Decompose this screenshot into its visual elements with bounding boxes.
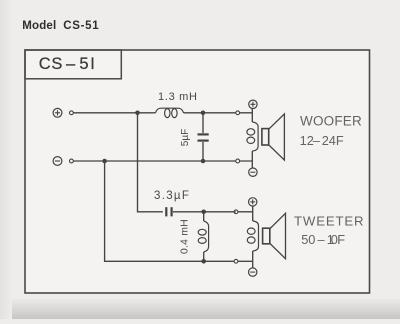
label TWEETER: [294, 213, 364, 228]
woofer speaker symbol: [262, 114, 285, 160]
terminal pin circle (woofer plus): [236, 111, 240, 115]
label 5uF (rotated): [180, 129, 191, 146]
inductor L2 0.4mH: [198, 212, 208, 261]
terminal pin circle (tweeter minus): [234, 259, 238, 263]
label 50-10F: [301, 232, 345, 247]
label 1.3mH: [158, 91, 198, 103]
svg-text:TWEETER: TWEETER: [294, 213, 364, 228]
node junction plus rail to tweeter feed: [135, 111, 140, 116]
node junction C1 bottom: [201, 159, 206, 164]
wire C2 to tweeter node: [173, 211, 236, 213]
terminal pin circle (woofer minus): [236, 159, 240, 163]
inductor L1 1.3mH: [156, 108, 184, 117]
wire pin to woofer plus corner: [240, 109, 253, 113]
title Model CS-51: [22, 20, 99, 32]
node junction C1 top: [201, 111, 206, 116]
capacitor C2 3.3uF: [166, 207, 171, 216]
wire tweeter feed vertical: [138, 113, 163, 212]
svg-text:WOOFER: WOOFER: [300, 114, 362, 129]
terminal pin circle (plus input): [70, 111, 74, 115]
svg-text:0.4 mH: 0.4 mH: [180, 219, 191, 254]
woofer minus terminal: [249, 168, 257, 176]
input terminal plus: [53, 108, 62, 117]
wire minus rail: [74, 160, 236, 162]
label 3.3uF: [154, 190, 190, 202]
node junction L2 top: [201, 210, 206, 215]
wire plus rail: [74, 112, 156, 114]
woofer voice coil: [247, 113, 258, 161]
terminal pin circle (minus input): [70, 159, 74, 163]
woofer plus terminal: [249, 100, 257, 108]
wire woofer minus corner: [240, 161, 253, 168]
tweeter voice coil: [247, 212, 258, 261]
tweeter minus terminal: [249, 268, 257, 276]
svg-text:1.3 mH: 1.3 mH: [158, 91, 198, 103]
capacitor C1 5uF: [198, 113, 209, 161]
svg-text:12–24F: 12–24F: [300, 133, 344, 148]
wire tweeter minus corner: [252, 261, 254, 268]
tweeter plus terminal: [249, 198, 257, 206]
node junction L2 bottom: [201, 259, 206, 264]
label 0.4mH (rotated): [180, 219, 191, 254]
node junction minus rail to tweeter return: [102, 159, 107, 164]
tweeter speaker symbol: [263, 213, 286, 258]
wire pin to tweeter plus corner: [238, 206, 253, 212]
model label box CS-51: [25, 50, 121, 79]
input terminal minus: [53, 157, 62, 166]
svg-text:CS–5I: CS–5I: [39, 55, 95, 73]
terminal pin circle (tweeter plus): [234, 210, 238, 214]
svg-text:3.3µF: 3.3µF: [154, 190, 190, 202]
wire plus rail after L1: [184, 112, 236, 114]
wire tweeter return vertical: [105, 161, 204, 261]
wire tweeter bottom rail to pin: [204, 260, 234, 262]
label WOOFER: [300, 114, 362, 129]
label 12-24F: [300, 133, 344, 148]
wire pin to tweeter minus corner: [238, 260, 253, 262]
svg-text:50–10F: 50–10F: [301, 232, 345, 247]
svg-text:5µF: 5µF: [180, 129, 191, 146]
